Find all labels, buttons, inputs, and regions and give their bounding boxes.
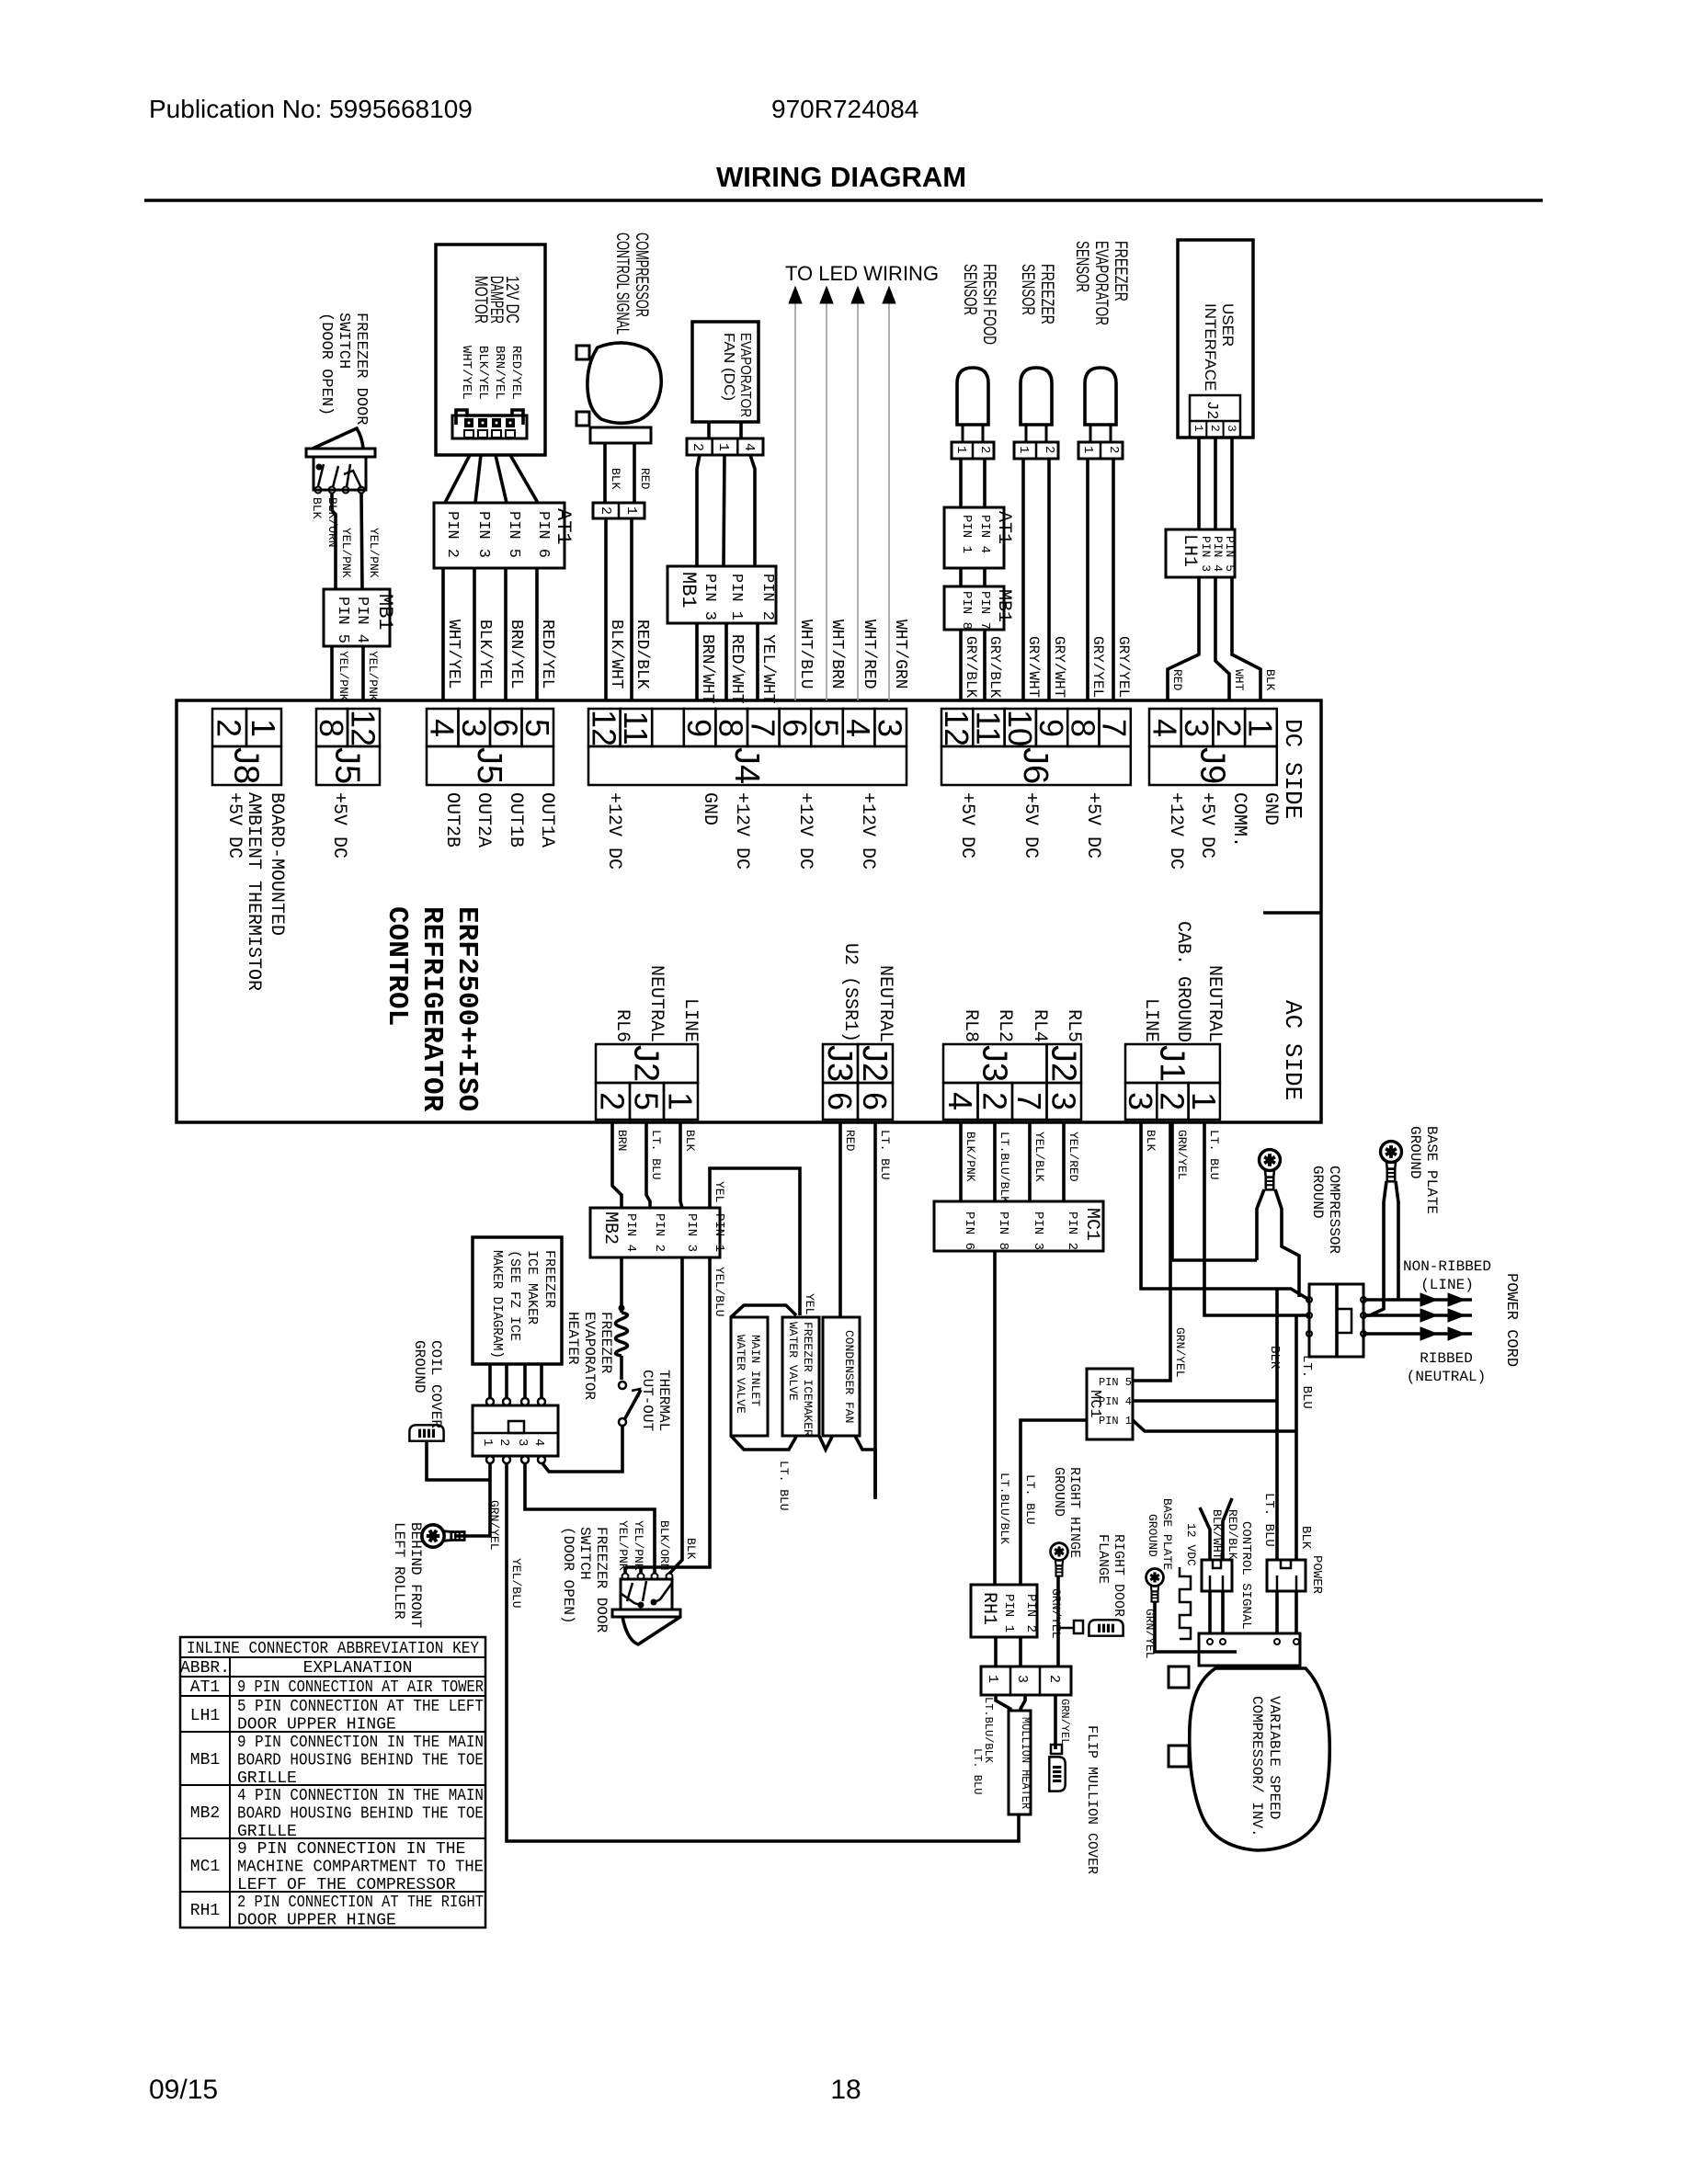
svg-text:COIL COVER: COIL COVER: [428, 1340, 444, 1428]
valve top bridge: [731, 1305, 796, 1317]
evap fan stubs: [707, 422, 711, 438]
svg-text:FLANGE: FLANGE: [1095, 1534, 1111, 1584]
svg-text:7: 7: [1010, 1092, 1048, 1110]
compressor mount square 1: [1169, 1666, 1189, 1688]
svg-text:GRN/YEL: GRN/YEL: [487, 1500, 501, 1551]
svg-text:MB1: MB1: [677, 572, 700, 609]
svg-text:BASE PLATE: BASE PLATE: [1160, 1498, 1174, 1570]
svg-text:PIN 2: PIN 2: [1065, 1211, 1079, 1250]
svg-text:GROUND: GROUND: [1051, 1467, 1066, 1517]
wire control signal 2: [1223, 1498, 1232, 1560]
svg-text:(SEE FZ ICE: (SEE FZ ICE: [507, 1250, 522, 1341]
svg-text:5: 5: [628, 1092, 666, 1110]
wires icemaker to connector: [488, 1364, 492, 1398]
svg-text:YEL/WHT: YEL/WHT: [758, 634, 777, 704]
svg-text:PIN 8: PIN 8: [996, 1211, 1010, 1250]
svg-text:PIN 6: PIN 6: [962, 1211, 976, 1250]
svg-text:RH1: RH1: [190, 1902, 220, 1920]
wire switch to MB1 pin4: [361, 494, 362, 589]
svg-text:6: 6: [821, 1092, 859, 1110]
svg-text:GRY/YEL: GRY/YEL: [1089, 636, 1106, 698]
mullion heater box: [1009, 1711, 1031, 1814]
svg-text:LH1: LH1: [1179, 534, 1200, 567]
svg-text:2: 2: [1042, 446, 1056, 453]
svg-text:MB2: MB2: [190, 1804, 220, 1823]
wire icemaker pin4 stub: [542, 1462, 542, 1465]
svg-text:2: 2: [977, 446, 992, 453]
wire base plate ground GRN/YEL to inverter: [1155, 1601, 1205, 1652]
svg-text:PIN 5: PIN 5: [1223, 536, 1237, 572]
svg-text:J1: J1: [1152, 1045, 1191, 1082]
svg-text:WATER VALVE: WATER VALVE: [734, 1335, 747, 1414]
wire hinge ground GRN/YEL to bar-2: [1056, 1575, 1060, 1666]
svg-text:J5: J5: [470, 747, 508, 784]
svg-text:WHT/BLU: WHT/BLU: [796, 620, 815, 689]
svg-text:RED: RED: [843, 1130, 857, 1152]
svg-text:2: 2: [598, 506, 613, 515]
wire icemaker pin1 to coil cover ground: [427, 1442, 490, 1480]
inline connector MB1 (PIN 8, PIN 7): [944, 586, 1004, 630]
power connector (compressor): [1267, 1560, 1306, 1591]
connector J6: [941, 709, 973, 746]
svg-text:USER: USER: [1219, 303, 1237, 347]
base plate ground ring (compressor): [1146, 1569, 1164, 1602]
wire BLK drop to compressor power: [1275, 1289, 1279, 1560]
svg-text:1: 1: [245, 719, 282, 737]
svg-text:7: 7: [1096, 719, 1134, 737]
damper motor connector: [456, 410, 523, 425]
wire bus to LT.BLU: [792, 1449, 793, 1450]
svg-text:2: 2: [211, 719, 248, 737]
svg-text:GROUND: GROUND: [1407, 1126, 1423, 1179]
freezer icemaker water valve box: [782, 1317, 819, 1436]
wire J2-2 BRN to MB2 pin4: [612, 1122, 622, 1208]
svg-text:RED: RED: [1170, 669, 1184, 691]
svg-text:LT. BLU: LT. BLU: [1261, 1493, 1276, 1547]
sensor bulb: [1085, 368, 1116, 425]
inline connector MC1 (PIN 5,4,1): [1087, 1369, 1133, 1439]
svg-text:J3: J3: [975, 1045, 1013, 1082]
svg-text:FAN (DC): FAN (DC): [721, 333, 736, 401]
svg-text:PIN 2: PIN 2: [443, 511, 461, 558]
title rule: [144, 199, 1543, 202]
inline connector MB2 (PIN 4,2,3,1): [590, 1208, 720, 1257]
wire MC1 pin5 GRN/YEL to J1-2: [1133, 1122, 1170, 1381]
svg-text:VARIABLE SPEED: VARIABLE SPEED: [1266, 1696, 1283, 1819]
svg-text:YEL/PNK: YEL/PNK: [336, 651, 350, 701]
svg-text:+12V DC: +12V DC: [603, 792, 624, 870]
svg-text:YEL/PNK: YEL/PNK: [339, 528, 353, 578]
wire AT1 pin1 to MB1 pin8: [959, 568, 963, 586]
svg-text:BLK: BLK: [310, 497, 324, 519]
wire AT1 pin4 to MB1 pin7: [983, 568, 987, 586]
svg-text:PIN 2: PIN 2: [652, 1213, 667, 1252]
wire RH1 pin1 to bar-1: [994, 1637, 998, 1666]
svg-text:3: 3: [1014, 1675, 1030, 1683]
wire MB1 pin5 to J5-8: [330, 646, 334, 700]
wire MC1 pin4 to BLK drop: [1133, 1399, 1277, 1403]
inline connector 1,3,2: [981, 1666, 1071, 1695]
svg-text:J6: J6: [1016, 747, 1055, 784]
svg-text:MC1: MC1: [1086, 1390, 1103, 1418]
svg-text:POWER: POWER: [1309, 1555, 1324, 1595]
svg-text:PIN 3: PIN 3: [474, 511, 492, 558]
svg-text:WATER VALVE: WATER VALVE: [786, 1322, 800, 1401]
svg-text:3: 3: [872, 719, 909, 737]
svg-text:RED/WHT: RED/WHT: [727, 634, 746, 704]
svg-text:RL5: RL5: [1063, 1009, 1084, 1042]
svg-text:ICE MAKER: ICE MAKER: [524, 1250, 540, 1325]
svg-text:GRILLE: GRILLE: [237, 1769, 297, 1788]
svg-text:BASE PLATE: BASE PLATE: [1423, 1126, 1440, 1214]
svg-text:GRY/BLK: GRY/BLK: [987, 636, 1003, 699]
evap fan connector bar 2,1,4: [687, 438, 763, 455]
svg-text:COMPRESSOR: COMPRESSOR: [1326, 1166, 1342, 1254]
compressor control signal sensor body: [587, 343, 661, 423]
user interface box: [1178, 240, 1253, 438]
LED wire 1: [794, 303, 796, 700]
wire fan-1 to MB1 pin1: [724, 455, 724, 566]
main inlet water valve box: [731, 1317, 768, 1436]
svg-text:CONDENSER FAN: CONDENSER FAN: [842, 1330, 856, 1423]
wire LH1 pin4 to J9-2 (WHT): [1215, 577, 1229, 700]
svg-text:AC SIDE: AC SIDE: [1279, 1000, 1306, 1100]
svg-text:LT.BLU/BLK: LT.BLU/BLK: [998, 1132, 1011, 1203]
svg-text:YEL/BLK: YEL/BLK: [1032, 1132, 1046, 1182]
power cord neutral wire: [1363, 1332, 1472, 1336]
wire RED (compressor): [633, 443, 636, 503]
svg-text:2: 2: [975, 1092, 1013, 1110]
switch contacts: [315, 487, 322, 494]
svg-text:2 PIN CONNECTION AT THE RIGHT: 2 PIN CONNECTION AT THE RIGHT: [237, 1894, 484, 1912]
svg-text:J2: J2: [855, 1045, 894, 1082]
inline connector 2/1 (compressor): [593, 503, 644, 518]
12 VDC square wave symbol: [1180, 1567, 1191, 1639]
wire MB1 pin1 to J4-8: [724, 623, 728, 700]
wire to J4-11: [630, 518, 633, 700]
svg-text:PIN 8: PIN 8: [959, 591, 974, 630]
svg-text:PIN 1: PIN 1: [712, 1213, 726, 1252]
svg-text:GND: GND: [699, 792, 720, 825]
svg-text:PIN 4: PIN 4: [623, 1213, 638, 1252]
connector J5 (4,3,6,5): [427, 709, 459, 746]
svg-text:NEUTRAL: NEUTRAL: [1203, 965, 1225, 1042]
wire freezer evap sensor pin1 to J6-8: [1086, 459, 1089, 700]
wire AT1 pin6 to J5-5: [535, 568, 539, 700]
svg-text:CONTROL: CONTROL: [381, 906, 413, 1026]
svg-text:GRY/WHT: GRY/WHT: [1051, 636, 1067, 698]
sensor connector bar 1,2: [952, 442, 994, 459]
svg-text:EVAPORATOR: EVAPORATOR: [1091, 241, 1111, 325]
svg-text:OUT1B: OUT1B: [505, 792, 526, 847]
svg-text:1: 1: [1192, 425, 1205, 432]
LED wire 4: [888, 303, 890, 700]
control board ERF2500 box: [177, 700, 1321, 1122]
svg-text:2: 2: [496, 1439, 511, 1446]
svg-text:FRESH FOOD: FRESH FOOD: [979, 264, 998, 345]
sensor connector bar 1,2: [1014, 442, 1058, 459]
LED wire 2: [826, 303, 827, 700]
svg-text:MB1: MB1: [993, 589, 1014, 622]
user interface J2 connector: [1190, 395, 1240, 438]
svg-text:YEL/PNK: YEL/PNK: [367, 528, 381, 578]
svg-text:GROUND: GROUND: [411, 1340, 428, 1393]
svg-text:POWER CORD: POWER CORD: [1502, 1273, 1520, 1367]
svg-text:GRY/WHT: GRY/WHT: [1025, 636, 1042, 698]
svg-text:+5V DC: +5V DC: [1082, 792, 1103, 859]
freezer evaporator heater coil: [616, 1313, 628, 1356]
svg-text:+12V DC: +12V DC: [731, 792, 752, 870]
wire bar-2 GRN/YEL to flip mullion cover: [1054, 1695, 1057, 1749]
svg-text:COMPRESSOR/ INV.: COMPRESSOR/ INV.: [1249, 1696, 1265, 1837]
svg-text:AT1: AT1: [190, 1678, 220, 1697]
svg-text:1: 1: [662, 1092, 700, 1110]
wire J2-5 LT.BLU to MB2 pin2: [646, 1122, 650, 1208]
svg-text:COMPRESSOR: COMPRESSOR: [632, 233, 651, 317]
svg-text:1: 1: [953, 446, 968, 453]
sensor bulb: [957, 368, 988, 425]
svg-text:NEUTRAL: NEUTRAL: [645, 965, 667, 1042]
svg-text:J2: J2: [627, 1045, 666, 1082]
svg-text:3: 3: [1225, 425, 1238, 432]
svg-text:9 PIN CONNECTION IN THE: 9 PIN CONNECTION IN THE: [237, 1840, 465, 1859]
svg-text:FREEZER ICEMAKER: FREEZER ICEMAKER: [801, 1322, 815, 1437]
svg-text:5: 5: [519, 719, 556, 737]
svg-text:MAIN INLET: MAIN INLET: [748, 1335, 762, 1406]
svg-text:J2: J2: [1044, 1045, 1082, 1082]
svg-text:YEL/BLU: YEL/BLU: [713, 1267, 726, 1317]
svg-text:YEL/PNK: YEL/PNK: [616, 1520, 630, 1571]
svg-text:FREEZER: FREEZER: [598, 1312, 614, 1374]
wire J3-7 YEL/BLK to MC1 pin3: [1028, 1122, 1032, 1201]
wire switch to MB1 pin5: [332, 494, 336, 589]
wire J1-3 BLK to power cord plug: [1141, 1122, 1309, 1300]
icemaker connector 1,2,3,4: [473, 1405, 558, 1456]
svg-text:PIN 4: PIN 4: [1211, 536, 1225, 572]
svg-text:THERMAL: THERMAL: [656, 1370, 672, 1431]
svg-text:PIN 5: PIN 5: [505, 511, 522, 558]
svg-text:18: 18: [830, 2075, 861, 2105]
svg-text:1: 1: [1016, 446, 1031, 453]
svg-text:SENSOR: SENSOR: [1018, 264, 1037, 315]
svg-text:CAB. GROUND: CAB. GROUND: [1172, 921, 1193, 1042]
wire freezer sensor pin2 to J6-9: [1047, 459, 1051, 700]
wire MB2 pin4 to heater: [620, 1257, 623, 1313]
svg-text:CONTROL SIGNAL: CONTROL SIGNAL: [1238, 1521, 1253, 1630]
svg-text:RL4: RL4: [1029, 1009, 1050, 1042]
svg-text:SWITCH: SWITCH: [335, 313, 352, 369]
svg-text:GND: GND: [1260, 792, 1281, 825]
wire heater to thermal cutout: [620, 1356, 623, 1380]
connector J1: [1125, 1083, 1157, 1120]
thermal cut-out: [619, 1382, 626, 1389]
connector J9: [1149, 709, 1181, 746]
svg-text:4: 4: [531, 1439, 546, 1446]
svg-text:RED/YEL: RED/YEL: [508, 346, 523, 400]
svg-text:LT. BLU: LT. BLU: [878, 1130, 892, 1180]
svg-text:WIRING DIAGRAM: WIRING DIAGRAM: [716, 161, 966, 193]
svg-text:12: 12: [345, 710, 382, 746]
svg-text:1: 1: [1185, 1092, 1223, 1110]
svg-text:1: 1: [985, 1675, 1000, 1683]
svg-text:GRILLE: GRILLE: [237, 1823, 297, 1841]
svg-text:LT.BLU/BLK: LT.BLU/BLK: [998, 1473, 1011, 1544]
compressor ground legs: [1257, 1189, 1264, 1260]
svg-text:+5V DC: +5V DC: [956, 792, 977, 859]
svg-text:MC1: MC1: [190, 1858, 220, 1876]
wire icemaker pin3 to door switch c3: [525, 1463, 655, 1573]
svg-text:GRN/YEL: GRN/YEL: [1173, 1327, 1187, 1378]
wire freezer evap sensor pin2 to J6-7: [1112, 459, 1115, 700]
svg-text:J3: J3: [820, 1045, 859, 1082]
wire MB1 pin7 to J6-11: [983, 630, 987, 700]
svg-text:COMM.: COMM.: [1228, 792, 1249, 847]
svg-text:3: 3: [1044, 1092, 1082, 1110]
freezer ice maker box: [473, 1237, 562, 1364]
svg-text:YEL/PNK: YEL/PNK: [366, 651, 380, 701]
svg-text:WHT/GRN: WHT/GRN: [891, 620, 909, 689]
compressor ground ring: [1260, 1150, 1281, 1190]
svg-text:BEHIND FRONT: BEHIND FRONT: [407, 1522, 424, 1628]
svg-text:YEL: YEL: [803, 1293, 816, 1314]
svg-text:LT. BLU: LT. BLU: [1023, 1474, 1037, 1525]
svg-text:RIGHT DOOR: RIGHT DOOR: [1111, 1534, 1126, 1617]
svg-text:5 PIN CONNECTION AT THE LEFT: 5 PIN CONNECTION AT THE LEFT: [237, 1698, 484, 1716]
svg-text:2: 2: [1046, 1675, 1062, 1683]
freezer door switch body: [306, 449, 375, 457]
svg-text:PIN 1: PIN 1: [959, 515, 974, 553]
svg-text:PIN 3: PIN 3: [1031, 1211, 1045, 1250]
variable speed compressor body: [1190, 1668, 1330, 1850]
svg-text:J9: J9: [1192, 747, 1231, 784]
svg-text:GRN/YEL: GRN/YEL: [1175, 1130, 1189, 1180]
inline connector AT1 (PIN 2,3,5,6): [434, 503, 565, 568]
svg-text:WHT/YEL: WHT/YEL: [444, 620, 462, 689]
svg-text:OUT1A: OUT1A: [536, 792, 557, 847]
svg-text:CUT-OUT: CUT-OUT: [639, 1370, 656, 1431]
evaporator fan box: [692, 322, 758, 422]
svg-text:LT. BLU: LT. BLU: [649, 1130, 663, 1180]
svg-text:PIN 3: PIN 3: [701, 574, 718, 620]
wire to J4-12: [604, 518, 608, 700]
wire RED J3-6 to condenser fan: [838, 1122, 842, 1317]
wire J1-1 LT.BLU to power cord plug: [1204, 1122, 1309, 1315]
svg-text:LEFT ROLLER: LEFT ROLLER: [391, 1522, 407, 1620]
svg-text:PIN 3: PIN 3: [1199, 536, 1213, 572]
wire MB2 pin1 down YEL/BLU: [625, 1257, 710, 1567]
svg-text:PIN 7: PIN 7: [977, 591, 992, 630]
power cord line wire: [1363, 1298, 1472, 1302]
wire UI-1 to LH1 pin3: [1197, 438, 1201, 529]
wire freezer sensor pin1 to J6-10: [1021, 459, 1025, 700]
wire J3-4 BLK/PNK to MC1 pin6: [959, 1122, 963, 1201]
wire bar-3 to mullion heater: [1021, 1695, 1025, 1711]
svg-text:INTERFACE: INTERFACE: [1202, 303, 1219, 391]
svg-text:GRY/BLK: GRY/BLK: [963, 636, 979, 699]
svg-text:RIBBED: RIBBED: [1420, 1350, 1473, 1367]
svg-text:11: 11: [617, 711, 655, 745]
svg-text:6: 6: [856, 1092, 894, 1110]
svg-text:YEL/RED: YEL/RED: [1066, 1132, 1080, 1182]
svg-text:MAKER DIAGRAM): MAKER DIAGRAM): [489, 1250, 505, 1359]
svg-text:NEUTRAL: NEUTRAL: [874, 965, 895, 1042]
svg-text:BLK: BLK: [1298, 1526, 1313, 1550]
power cord mid wire: [1363, 1314, 1472, 1317]
svg-text:PIN 6: PIN 6: [534, 511, 552, 558]
svg-text:SENSOR: SENSOR: [960, 264, 979, 315]
svg-text:FREEZER DOOR: FREEZER DOOR: [593, 1527, 610, 1633]
svg-text:9 PIN CONNECTION AT AIR TOWER: 9 PIN CONNECTION AT AIR TOWER: [237, 1678, 484, 1697]
wire fan-2 to MB1 pin3: [697, 455, 700, 566]
wire LH1 pin5 to J9-1 (BLK): [1232, 577, 1260, 700]
svg-text:DC SIDE: DC SIDE: [1279, 719, 1306, 819]
svg-text:OUT2A: OUT2A: [473, 792, 494, 847]
svg-text:1: 1: [623, 506, 639, 515]
wire BLK (compressor): [603, 443, 607, 503]
wire icemaker pin1 to roller ground GRN/YEL: [454, 1480, 490, 1536]
svg-text:GRY/YEL: GRY/YEL: [1115, 636, 1132, 698]
svg-text:BRN/YEL: BRN/YEL: [507, 620, 525, 689]
svg-text:YEL: YEL: [713, 1181, 726, 1202]
connector J4: [588, 709, 621, 746]
wire J3-2 LT.BLU/BLK to MC1 pin8: [993, 1122, 997, 1201]
svg-text:J5: J5: [328, 747, 367, 784]
inline connector RH1 (PIN 1, PIN 2): [971, 1585, 1037, 1637]
door switch bottom lever: [622, 1617, 680, 1644]
svg-text:BLK/ORN: BLK/ORN: [657, 1520, 671, 1571]
svg-text:1: 1: [1080, 446, 1095, 453]
svg-text:RED/BLK: RED/BLK: [1226, 1509, 1239, 1560]
svg-text:HEATER: HEATER: [565, 1312, 581, 1365]
svg-text:EXPLANATION: EXPLANATION: [303, 1659, 413, 1678]
svg-text:BLK/YEL: BLK/YEL: [475, 346, 490, 400]
svg-text:BOARD HOUSING BEHIND THE TOE: BOARD HOUSING BEHIND THE TOE: [237, 1751, 484, 1769]
svg-text:MB2: MB2: [599, 1211, 621, 1245]
svg-text:RIGHT HINGE: RIGHT HINGE: [1066, 1467, 1082, 1558]
svg-text:MULLION HEATER: MULLION HEATER: [1018, 1717, 1032, 1810]
svg-text:RL2: RL2: [994, 1009, 1015, 1042]
svg-text:2: 2: [594, 1092, 632, 1110]
svg-text:REFRIGERATOR: REFRIGERATOR: [416, 906, 448, 1112]
svg-text:BRN/WHT: BRN/WHT: [698, 634, 716, 704]
12V DC damper motor box: [436, 245, 545, 455]
svg-text:MC1: MC1: [1081, 1208, 1102, 1241]
svg-text:ABBR.: ABBR.: [180, 1659, 230, 1678]
wire MC1 pin1 to LT.BLU drop: [1133, 1420, 1296, 1431]
svg-text:(LINE): (LINE): [1420, 1277, 1474, 1293]
wire MB2 pin3 to door switch c4: [669, 1257, 682, 1574]
wire fan-4 to MB1 pin2: [750, 455, 755, 566]
wire cutout to icemaker pin4: [542, 1426, 622, 1472]
svg-text:PIN 5: PIN 5: [1099, 1376, 1132, 1389]
svg-text:AMBIENT THERMISTOR: AMBIENT THERMISTOR: [243, 792, 264, 991]
wire MB2 pin1 YEL to icemaker water valve: [710, 1168, 800, 1315]
svg-text:RED: RED: [638, 468, 652, 490]
svg-text:RL6: RL6: [611, 1009, 633, 1042]
wire c1 stub: [623, 1567, 627, 1573]
wire UI-3 to LH1 pin5: [1230, 438, 1234, 529]
svg-text:FREEZER DOOR: FREEZER DOOR: [352, 313, 370, 425]
svg-text:U2 (SSR1): U2 (SSR1): [839, 943, 861, 1042]
svg-text:BLK: BLK: [683, 1130, 697, 1152]
svg-text:DOOR UPPER HINGE: DOOR UPPER HINGE: [237, 1911, 396, 1929]
svg-text:FLIP MULLION COVER: FLIP MULLION COVER: [1084, 1725, 1100, 1874]
wire MB1 pin8 to J6-12: [959, 630, 963, 700]
svg-text:PIN 1: PIN 1: [1001, 1594, 1016, 1632]
svg-text:GRN/YEL: GRN/YEL: [1058, 1699, 1071, 1745]
svg-text:(DOOR OPEN): (DOOR OPEN): [560, 1527, 576, 1624]
wire LT.BLU drop to compressor power: [1295, 1315, 1298, 1560]
